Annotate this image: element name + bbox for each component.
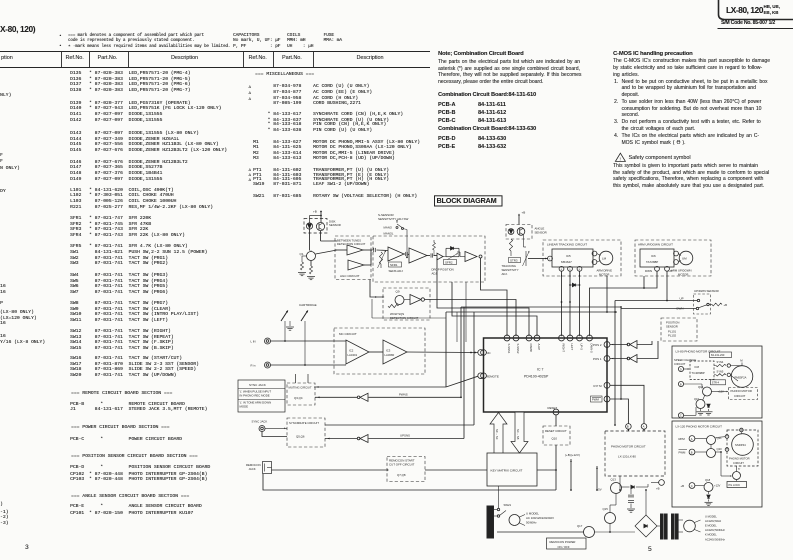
svg-text:LX-120 PHONO MOTOR CIRCUIT: LX-120 PHONO MOTOR CIRCUIT [676, 425, 723, 429]
svg-text:K MODEL: K MODEL [705, 533, 717, 537]
svg-text:Q21: Q21 [717, 436, 723, 440]
svg-text:E MODEL: E MODEL [705, 524, 717, 528]
svg-text:Q18: Q18 [705, 478, 711, 482]
svg-text:SFR2: SFR2 [445, 260, 453, 264]
svg-text:SW21: SW21 [504, 503, 512, 507]
svg-text:DWN: DWN [645, 269, 652, 273]
svg-text:ON / OFF: ON / OFF [558, 545, 570, 549]
svg-text:IC5: IC5 [566, 254, 571, 258]
svg-text:CIRCUIT: CIRCUIT [674, 362, 686, 366]
svg-text:!: ! [620, 157, 621, 162]
svg-text:SENSOR: SENSOR [329, 223, 341, 227]
svg-text:PHONO MOTOR: PHONO MOTOR [731, 389, 752, 393]
svg-text:POS 1: POS 1 [593, 357, 602, 361]
svg-text:R P M: R P M [594, 384, 603, 388]
svg-text:MANOL: MANOL [384, 232, 394, 236]
svg-text:PHONO MOTOR CIRCUIT: PHONO MOTOR CIRCUIT [611, 445, 646, 449]
svg-text:U MODEL: U MODEL [705, 515, 717, 519]
svg-text:Q7,Q8: Q7,Q8 [397, 473, 406, 477]
svg-text:UP: UP [680, 297, 684, 301]
svg-text:PD4100-402SP: PD4100-402SP [524, 375, 549, 379]
svg-text:SENSITIVITY ADJ SW: SENSITIVITY ADJ SW [378, 217, 408, 221]
svg-text:Q15: Q15 [603, 507, 609, 511]
svg-text:MOTOR: MOTOR [599, 272, 609, 276]
svg-text:A-UP: A-UP [537, 344, 541, 351]
svg-text:+5V: +5V [597, 488, 602, 492]
svg-text:S-SNS2: S-SNS2 [516, 344, 520, 354]
svg-text:SYNCMRATE CIRCUIT: SYNCMRATE CIRCUIT [289, 421, 319, 425]
svg-text:LA3401: LA3401 [348, 353, 358, 357]
svg-text:MUTING CIRCUIT: MUTING CIRCUIT [289, 386, 312, 390]
svg-text:C: C [680, 414, 682, 418]
svg-text:PG LOCK: PG LOCK [729, 483, 741, 487]
svg-text:UP-S: UP-S [579, 344, 583, 351]
svg-text:Q17: Q17 [577, 524, 583, 528]
svg-text:ARM UP/DOWN CIRCUIT: ARM UP/DOWN CIRCUIT [638, 243, 673, 247]
svg-text:SENSOR: SENSOR [535, 231, 547, 235]
svg-text:LX-120,LX-80: LX-120,LX-80 [618, 455, 636, 459]
svg-text:Q9: Q9 [396, 290, 400, 294]
svg-text:Tr: Tr [738, 468, 740, 471]
svg-text:LA3080: LA3080 [385, 353, 395, 357]
svg-text:AC240V,50/60Hz: AC240V,50/60Hz [705, 537, 726, 541]
svg-text:+B: +B [313, 210, 317, 214]
svg-text:RESET: RESET [548, 406, 558, 410]
svg-text:B: B [627, 425, 629, 429]
svg-text:ADJ.: ADJ. [502, 272, 508, 276]
svg-text:SENSOR: SENSOR [666, 325, 678, 329]
svg-text:B: B [680, 382, 682, 386]
svg-text:U MODEL: U MODEL [526, 512, 539, 516]
svg-text:AC220V,50/60Hz: AC220V,50/60Hz [705, 528, 726, 532]
svg-text:SSDP44: SSDP44 [735, 443, 746, 447]
svg-text:R in: R in [251, 364, 256, 368]
svg-text:Q14: Q14 [698, 385, 704, 389]
svg-text:CARTRIDGE: CARTRIDGE [299, 303, 317, 307]
svg-text:A: A [643, 425, 645, 429]
svg-text:M54647: M54647 [561, 260, 572, 264]
svg-text:Q10: Q10 [552, 437, 558, 441]
svg-text:PM55F2A: PM55F2A [735, 376, 747, 380]
svg-text:CIRCUIT: CIRCUIT [734, 394, 746, 398]
svg-text:L IN: L IN [250, 340, 255, 344]
svg-text:REMOTE: REMOTE [486, 375, 499, 379]
svg-text:STR-4: STR-4 [712, 382, 720, 385]
svg-text:MOTOR: MOTOR [678, 272, 688, 276]
svg-text:RESET CIRCUIT: RESET CIRCUIT [545, 429, 567, 433]
svg-text:(+B)(+12V): (+B)(+12V) [565, 453, 580, 457]
svg-text:UM: UM [682, 257, 687, 261]
svg-text:LM: LM [602, 257, 607, 261]
svg-text:Q3,Q4: Q3,Q4 [294, 396, 303, 400]
svg-text:PL102: PL102 [668, 334, 677, 338]
svg-text:SYNC JACK: SYNC JACK [252, 420, 268, 424]
svg-text:50/60Hz: 50/60Hz [526, 521, 537, 525]
svg-text:DWN: DWN [677, 307, 684, 311]
svg-text:STR3: STR3 [510, 258, 518, 262]
svg-text:+12V: +12V [714, 484, 721, 488]
svg-text:IC2: IC2 [349, 349, 354, 353]
svg-text:AC 100/120/220/240V: AC 100/120/220/240V [526, 516, 554, 520]
svg-text:+B: +B [681, 484, 685, 488]
svg-text:Q5,Q6: Q5,Q6 [296, 435, 305, 439]
svg-text:REMOCON POWER: REMOCON POWER [550, 540, 576, 544]
svg-text:AC120V,60Hz: AC120V,60Hz [705, 519, 722, 523]
svg-text:PWM: PWM [679, 451, 687, 455]
svg-text:PHONO MOTOR: PHONO MOTOR [729, 457, 750, 461]
svg-text:JACK: JACK [249, 467, 256, 471]
svg-text:MANO: MANO [384, 226, 393, 230]
svg-text:SYNC JACK: SYNC JACK [249, 383, 266, 387]
svg-text:IC3: IC3 [386, 349, 391, 353]
svg-text:KEY MATRIX CIRCUIT: KEY MATRIX CIRCUIT [491, 469, 523, 473]
svg-text:CIRCUIT: CIRCUIT [733, 461, 744, 465]
svg-text:SYN4: SYN4 [717, 360, 724, 364]
svg-text:LEFT: LEFT [570, 344, 574, 351]
svg-text:CUT OFF CIRCUIT: CUT OFF CIRCUIT [389, 463, 415, 467]
svg-text:B: B [691, 450, 693, 454]
svg-text:IC8: IC8 [695, 365, 700, 369]
svg-text:Q13: Q13 [611, 478, 617, 482]
svg-text:MC CIRCUIT: MC CIRCUIT [339, 332, 357, 336]
svg-text:SYN5: SYN5 [717, 369, 724, 373]
svg-text:D: D [680, 367, 682, 371]
svg-text:Q1: Q1 [300, 252, 304, 256]
svg-text:M: M [740, 359, 743, 363]
svg-text:+B: +B [724, 303, 728, 307]
svg-text:Q16: Q16 [694, 397, 699, 401]
svg-text:S4 ~ S8: S4 ~ S8 [516, 429, 520, 440]
svg-text:LINEAR TRACKING CIRCUIT: LINEAR TRACKING CIRCUIT [547, 243, 587, 247]
svg-text:UP: UP [669, 269, 673, 273]
svg-text:TC4069BP: TC4069BP [692, 371, 705, 375]
svg-text:RIGHT: RIGHT [561, 344, 565, 353]
svg-text:LX-80 PHONO MOTOR CIRCUIT: LX-80 PHONO MOTOR CIRCUIT [676, 350, 721, 354]
svg-text:+B: +B [522, 211, 526, 215]
svg-text:POS 2: POS 2 [593, 343, 602, 347]
svg-text:UPSNS: UPSNS [400, 433, 410, 437]
svg-text:OSMD: OSMD [529, 344, 533, 352]
svg-text:C: C [691, 484, 693, 488]
svg-text:IC 7: IC 7 [537, 368, 543, 372]
svg-text:UP/DWN SENSOR: UP/DWN SENSOR [694, 289, 719, 293]
svg-text:SENS ADJ: SENS ADJ [389, 269, 404, 273]
svg-text:84-131-230: 84-131-230 [711, 353, 725, 357]
svg-text:AGC CIRCUIT: AGC CIRCUIT [340, 274, 360, 278]
svg-text:RPM: RPM [679, 437, 686, 441]
svg-text:MODE: MODE [240, 405, 249, 409]
svg-text:S-SNS1: S-SNS1 [507, 344, 511, 354]
svg-text:A: A [691, 437, 693, 441]
svg-text:S9 ~ S3: S9 ~ S3 [495, 429, 499, 440]
svg-text:MC: MC [486, 351, 491, 355]
svg-text:PWM: PWM [592, 398, 600, 402]
svg-text:TA7288P: TA7288P [646, 260, 658, 264]
svg-text:Q20: Q20 [717, 447, 723, 451]
svg-text:PWNS: PWNS [399, 392, 408, 396]
svg-text:SFR1: SFR1 [390, 263, 398, 267]
svg-text:IC6: IC6 [651, 254, 656, 258]
svg-text:IN PHONO REC MODE: IN PHONO REC MODE [240, 394, 270, 398]
svg-text:DETECTION CIRCUIT: DETECTION CIRCUIT [337, 242, 366, 246]
svg-text:+B: +B [656, 487, 660, 491]
